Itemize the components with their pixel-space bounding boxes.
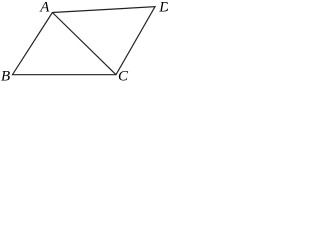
svg-text:D: D <box>158 0 168 16</box>
svg-text:A: A <box>39 0 50 16</box>
svg-text:B: B <box>1 69 10 82</box>
svg-text:C: C <box>118 68 129 82</box>
